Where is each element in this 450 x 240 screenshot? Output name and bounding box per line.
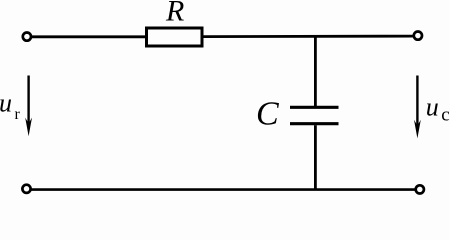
wire capacitor branch lower (bottom plate to bottom rail) <box>314 125 317 190</box>
label u_c <box>426 93 450 126</box>
svg-text:C: C <box>256 95 279 132</box>
svg-text:R: R <box>165 0 184 28</box>
svg-text:u: u <box>426 93 439 122</box>
terminal bottom-right <box>416 185 424 193</box>
svg-text:c: c <box>441 105 449 126</box>
terminal top-right <box>414 31 422 39</box>
label u_r <box>0 88 21 123</box>
capacitor C <box>290 107 339 123</box>
wire top-right (resistor to output terminal) <box>204 35 415 38</box>
wire bottom rail <box>31 188 415 191</box>
terminal top-left <box>23 33 31 41</box>
output voltage arrow u_c <box>414 76 421 139</box>
wire capacitor branch upper (node to top plate) <box>314 36 317 106</box>
terminal bottom-left <box>22 185 30 193</box>
wire top-left (terminal to resistor) <box>32 35 146 38</box>
input voltage arrow u_r <box>25 76 32 137</box>
svg-text:u: u <box>0 88 12 117</box>
resistor R <box>147 28 203 46</box>
svg-text:r: r <box>15 106 21 123</box>
